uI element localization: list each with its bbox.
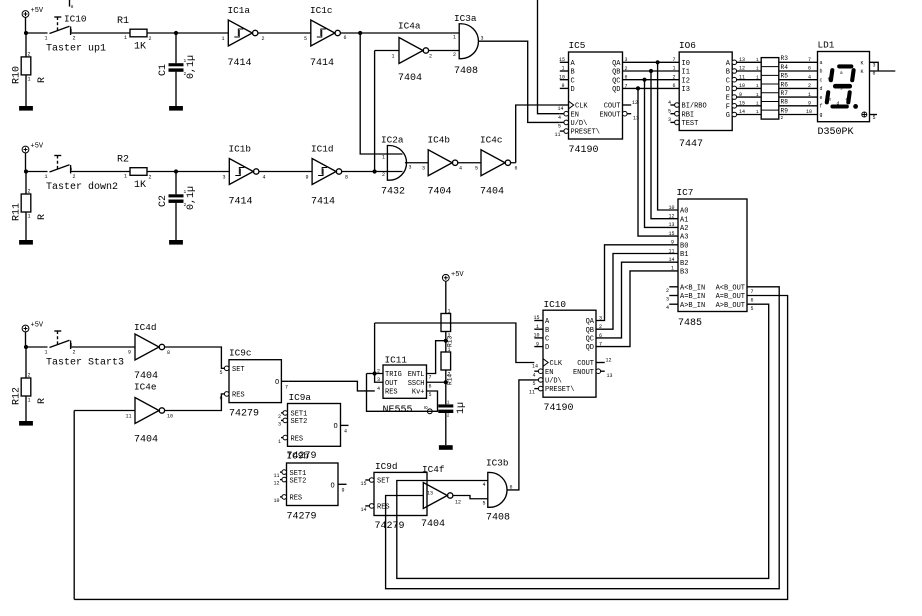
svg-text:4: 4 bbox=[533, 373, 536, 379]
svg-text:1: 1 bbox=[808, 92, 811, 98]
pin D 9 bbox=[560, 87, 569, 89]
svg-text:10: 10 bbox=[274, 498, 280, 504]
svg-text:D: D bbox=[571, 86, 575, 94]
svg-text:SET: SET bbox=[232, 366, 245, 374]
wire c bbox=[779, 79, 818, 81]
wire DIS up to resistor node bbox=[427, 341, 446, 374]
wire bbox=[375, 51, 399, 172]
svg-text:U/D\: U/D\ bbox=[545, 378, 562, 386]
wire QD to B3 bbox=[596, 271, 678, 347]
comparator IC7 7485 bbox=[666, 187, 754, 329]
svg-text:8: 8 bbox=[424, 406, 430, 409]
resistor R14 bbox=[441, 347, 454, 385]
svg-text:IC4e: IC4e bbox=[134, 382, 157, 393]
pin B 1 bbox=[534, 328, 543, 330]
pin C 11 bbox=[732, 77, 737, 82]
svg-text:1: 1 bbox=[756, 66, 759, 72]
svg-text:74279: 74279 bbox=[229, 409, 259, 420]
pin PRESET 11 bbox=[564, 129, 569, 134]
svg-text:3: 3 bbox=[278, 422, 281, 428]
svg-text:CLK: CLK bbox=[575, 103, 588, 111]
svg-text:QA: QA bbox=[586, 318, 595, 326]
svg-text:A>B_IN: A>B_IN bbox=[680, 302, 705, 310]
wire bbox=[25, 33, 27, 57]
svg-text:74190: 74190 bbox=[569, 145, 599, 156]
wire bbox=[25, 17, 27, 33]
svg-text:+5V: +5V bbox=[31, 7, 44, 15]
svg-text:IC2a: IC2a bbox=[381, 135, 404, 146]
pin RBI 5 bbox=[675, 111, 680, 116]
svg-text:7432: 7432 bbox=[381, 187, 405, 198]
svg-text:RES: RES bbox=[290, 495, 303, 503]
wire bbox=[25, 347, 27, 378]
junction bbox=[444, 380, 448, 384]
svg-text:12: 12 bbox=[606, 358, 612, 364]
junction bbox=[636, 86, 640, 90]
svg-text:2: 2 bbox=[673, 74, 676, 80]
svg-text:6: 6 bbox=[429, 383, 432, 389]
svg-text:1: 1 bbox=[28, 77, 31, 83]
wire bbox=[258, 32, 311, 34]
wire IC4e out to RES bbox=[165, 394, 225, 411]
svg-text:9: 9 bbox=[562, 83, 565, 89]
wire QA to A0 bbox=[658, 62, 678, 210]
wire QC bbox=[623, 79, 680, 81]
svg-text:0,1µ: 0,1µ bbox=[186, 55, 197, 79]
svg-text:4: 4 bbox=[459, 166, 462, 172]
wire IC9c Q to NE555 RES bbox=[288, 381, 375, 391]
svg-text:9: 9 bbox=[536, 341, 539, 347]
svg-text:D: D bbox=[545, 344, 549, 352]
wire QA to B0 bbox=[596, 245, 678, 321]
svg-text:1: 1 bbox=[448, 347, 451, 353]
wire QD bbox=[623, 87, 680, 89]
svg-text:6: 6 bbox=[220, 396, 223, 402]
ground bbox=[19, 106, 33, 111]
svg-text:7: 7 bbox=[429, 375, 432, 381]
junction bbox=[373, 169, 377, 173]
svg-text:R5: R5 bbox=[781, 73, 789, 80]
svg-text:1: 1 bbox=[184, 189, 187, 195]
pin G 14 bbox=[732, 112, 737, 117]
junction bbox=[174, 31, 178, 35]
svg-text:1: 1 bbox=[28, 398, 31, 404]
svg-text:G: G bbox=[726, 112, 730, 120]
svg-text:EN: EN bbox=[571, 111, 579, 119]
svg-text:IC11: IC11 bbox=[385, 355, 408, 366]
resistor R1 1K bbox=[117, 16, 152, 53]
svg-text:C: C bbox=[571, 77, 575, 85]
svg-text:10: 10 bbox=[669, 205, 675, 211]
wire bbox=[175, 33, 177, 63]
svg-text:SET2: SET2 bbox=[290, 477, 307, 485]
svg-text:IC4d: IC4d bbox=[134, 322, 157, 333]
svg-text:R12: R12 bbox=[12, 387, 23, 405]
svg-text:PRESET\: PRESET\ bbox=[545, 386, 574, 394]
svg-text:10: 10 bbox=[534, 333, 540, 339]
junction bbox=[24, 169, 28, 173]
pin EN 4 bbox=[538, 369, 543, 374]
svg-text:2: 2 bbox=[73, 350, 76, 356]
wire QD to A3 bbox=[638, 88, 678, 236]
svg-text:b: b bbox=[851, 73, 854, 79]
svg-text:7414: 7414 bbox=[228, 58, 252, 69]
wire bbox=[342, 171, 403, 173]
svg-text:1: 1 bbox=[45, 350, 48, 356]
svg-text:3: 3 bbox=[666, 297, 669, 303]
svg-text:QD: QD bbox=[612, 86, 620, 94]
latch IC9d 74279 bbox=[361, 461, 428, 532]
wire TRIG to Kv+ loop bbox=[367, 374, 438, 412]
ground bbox=[439, 445, 453, 450]
svg-text:7414: 7414 bbox=[229, 197, 253, 208]
svg-text:5: 5 bbox=[429, 392, 432, 398]
svg-text:2: 2 bbox=[73, 174, 76, 180]
svg-text:1: 1 bbox=[453, 35, 456, 41]
svg-text:7404: 7404 bbox=[480, 187, 504, 198]
svg-text:QD: QD bbox=[586, 344, 594, 352]
svg-text:NE555: NE555 bbox=[383, 405, 413, 416]
svg-text:1: 1 bbox=[756, 101, 759, 107]
svg-text:K: K bbox=[861, 61, 864, 67]
svg-text:7404: 7404 bbox=[428, 187, 452, 198]
svg-text:IC4b: IC4b bbox=[428, 135, 451, 146]
wire a bbox=[779, 61, 818, 63]
latch IC9b 74279 bbox=[274, 463, 347, 523]
svg-text:b: b bbox=[820, 69, 823, 75]
latch IC9a 74279 bbox=[278, 392, 349, 462]
svg-text:74279: 74279 bbox=[375, 521, 405, 532]
svg-text:6: 6 bbox=[515, 166, 518, 172]
pin E 9 bbox=[732, 95, 737, 100]
pin UD 5 bbox=[538, 378, 543, 383]
svg-text:2: 2 bbox=[453, 52, 456, 58]
pin D 10 bbox=[732, 86, 737, 91]
svg-text:A>B_OUT: A>B_OUT bbox=[716, 302, 745, 310]
pin CLK 14 bbox=[560, 104, 569, 106]
svg-text:9: 9 bbox=[342, 488, 345, 494]
svg-text:15: 15 bbox=[669, 231, 675, 237]
wire TRIG row bbox=[367, 323, 384, 382]
svg-text:3: 3 bbox=[668, 117, 671, 123]
wire QB bbox=[623, 70, 680, 72]
wire IC4f out to IC3b in2 bbox=[453, 496, 488, 499]
svg-text:D350PK: D350PK bbox=[818, 127, 854, 138]
svg-text:7404: 7404 bbox=[398, 73, 422, 84]
svg-text:F: F bbox=[726, 103, 730, 111]
svg-text:+5V: +5V bbox=[451, 271, 464, 279]
svg-text:5: 5 bbox=[558, 124, 561, 130]
svg-text:4: 4 bbox=[483, 482, 486, 488]
svg-text:12: 12 bbox=[632, 100, 638, 106]
pin F 15 bbox=[732, 104, 737, 109]
svg-text:7447: 7447 bbox=[679, 139, 703, 150]
svg-text:11: 11 bbox=[669, 248, 675, 254]
pin COUT 12 bbox=[623, 104, 632, 106]
svg-text:1µ: 1µ bbox=[456, 402, 467, 414]
capacitor C3 1u bbox=[438, 400, 467, 419]
svg-text:d: d bbox=[820, 86, 823, 92]
pin AEB_IN 3 bbox=[669, 295, 678, 297]
capacitor C2 bbox=[158, 186, 197, 210]
svg-text:10: 10 bbox=[806, 109, 812, 115]
svg-text:14: 14 bbox=[669, 257, 675, 263]
svg-text:2: 2 bbox=[447, 413, 450, 419]
pin ENOUT 13 bbox=[596, 369, 601, 374]
svg-text:C2: C2 bbox=[158, 195, 169, 207]
svg-text:IC1b: IC1b bbox=[229, 144, 252, 155]
svg-text:10: 10 bbox=[559, 74, 565, 80]
wire e bbox=[779, 96, 818, 98]
wire bbox=[175, 172, 177, 195]
svg-text:2: 2 bbox=[73, 36, 76, 42]
svg-text:4: 4 bbox=[263, 175, 266, 181]
svg-text:B: B bbox=[726, 69, 730, 77]
wire bbox=[25, 172, 27, 195]
wire bbox=[147, 32, 228, 34]
svg-text:E: E bbox=[726, 95, 730, 103]
svg-text:IC1d: IC1d bbox=[311, 144, 334, 155]
svg-text:g: g bbox=[820, 112, 823, 118]
wire QB to B1 bbox=[596, 254, 678, 330]
svg-text:7404: 7404 bbox=[134, 435, 158, 446]
svg-text:2: 2 bbox=[262, 36, 265, 42]
and gate IC3a bbox=[453, 13, 484, 77]
power +5V for timer bbox=[442, 271, 464, 281]
capacitor C1 bbox=[158, 55, 197, 79]
svg-text:1: 1 bbox=[278, 439, 281, 445]
svg-text:Taster Start3: Taster Start3 bbox=[46, 358, 124, 369]
pin D 9 bbox=[534, 346, 543, 348]
junction bbox=[656, 60, 660, 64]
pin C 10 bbox=[560, 79, 569, 81]
display LD1 D350PK bbox=[818, 40, 870, 139]
power +5V bbox=[22, 143, 44, 153]
svg-text:1: 1 bbox=[45, 36, 48, 42]
svg-text:1: 1 bbox=[756, 74, 759, 80]
pin AGB_IN 4 bbox=[669, 303, 678, 305]
svg-text:74190: 74190 bbox=[544, 403, 574, 414]
pin PRESET 11 bbox=[538, 386, 543, 391]
svg-text:f: f bbox=[820, 104, 823, 110]
ground bbox=[169, 106, 183, 111]
wire QC to A2 bbox=[645, 80, 679, 228]
junction bbox=[174, 169, 178, 173]
svg-text:4: 4 bbox=[808, 74, 811, 80]
svg-text:A<B_OUT: A<B_OUT bbox=[716, 284, 745, 292]
svg-text:COUT: COUT bbox=[604, 103, 621, 111]
svg-text:14: 14 bbox=[558, 106, 564, 112]
svg-text:d: d bbox=[837, 101, 840, 107]
svg-text:8: 8 bbox=[167, 350, 170, 356]
svg-text:0,1µ: 0,1µ bbox=[186, 186, 197, 210]
svg-text:1: 1 bbox=[756, 109, 759, 115]
resistor R12 bbox=[12, 373, 49, 406]
svg-text:8: 8 bbox=[873, 71, 876, 77]
svg-text:1: 1 bbox=[673, 66, 676, 72]
pin B 1 bbox=[560, 70, 569, 72]
power +5V bbox=[22, 322, 44, 332]
svg-text:5: 5 bbox=[751, 306, 754, 312]
svg-text:c: c bbox=[846, 98, 849, 103]
wire bbox=[445, 370, 447, 404]
svg-text:7404: 7404 bbox=[134, 371, 158, 382]
svg-text:5: 5 bbox=[475, 166, 478, 172]
svg-text:IO6: IO6 bbox=[679, 40, 696, 51]
wire bbox=[25, 75, 27, 106]
svg-text:R2: R2 bbox=[117, 155, 129, 166]
counter IC10 74190 bbox=[529, 299, 613, 414]
junction bbox=[373, 371, 377, 375]
svg-text:1: 1 bbox=[447, 400, 450, 406]
inverter IC4d bbox=[128, 322, 170, 382]
svg-text:QB: QB bbox=[586, 327, 594, 335]
pin A 13 bbox=[732, 60, 737, 65]
inverter IC4c bbox=[475, 135, 518, 198]
wire bbox=[478, 41, 559, 122]
svg-text:9: 9 bbox=[739, 92, 742, 98]
svg-text:1K: 1K bbox=[134, 180, 146, 191]
svg-text:R3: R3 bbox=[781, 55, 789, 62]
svg-text:R14: R14 bbox=[447, 374, 454, 385]
svg-text:Kv+: Kv+ bbox=[412, 389, 425, 397]
svg-text:15: 15 bbox=[739, 101, 745, 107]
svg-text:6: 6 bbox=[751, 298, 754, 304]
svg-text:5: 5 bbox=[483, 501, 486, 507]
svg-text:6: 6 bbox=[808, 66, 811, 72]
svg-text:11: 11 bbox=[126, 414, 132, 420]
wire f bbox=[779, 105, 818, 107]
wire b bbox=[779, 70, 818, 72]
svg-text:2: 2 bbox=[278, 414, 281, 420]
ground bbox=[19, 421, 33, 426]
wire bbox=[71, 346, 135, 348]
svg-text:O: O bbox=[334, 423, 338, 431]
svg-text:R11: R11 bbox=[12, 203, 23, 221]
junction bbox=[444, 339, 448, 343]
svg-text:2: 2 bbox=[149, 36, 152, 42]
svg-text:ENOUT: ENOUT bbox=[599, 111, 620, 119]
svg-text:R7: R7 bbox=[781, 90, 789, 97]
svg-text:15: 15 bbox=[534, 315, 540, 321]
svg-text:1: 1 bbox=[124, 35, 127, 41]
wire bbox=[71, 32, 130, 34]
wire ALB_OUT feedback to IC4f bbox=[386, 287, 780, 589]
inverter IC4b bbox=[422, 135, 462, 198]
svg-text:+5V: +5V bbox=[31, 322, 44, 330]
svg-text:SET: SET bbox=[377, 478, 390, 486]
svg-text:SET2: SET2 bbox=[291, 418, 308, 426]
svg-text:5: 5 bbox=[533, 381, 536, 387]
pin UD 5 bbox=[564, 120, 569, 125]
wire IC3b out to IC10 UD bbox=[507, 380, 536, 490]
svg-text:13: 13 bbox=[607, 373, 613, 379]
wire bbox=[259, 171, 312, 173]
svg-text:7414: 7414 bbox=[310, 58, 334, 69]
svg-text:15: 15 bbox=[559, 57, 565, 63]
svg-text:9: 9 bbox=[128, 350, 131, 356]
svg-text:OUT: OUT bbox=[385, 380, 398, 388]
wire bbox=[26, 332, 48, 347]
pin B 12 bbox=[732, 69, 737, 74]
wire bbox=[25, 396, 27, 421]
svg-text:g: g bbox=[840, 86, 843, 91]
svg-text:1: 1 bbox=[448, 309, 451, 315]
wire QB to A1 bbox=[651, 71, 678, 219]
svg-text:5: 5 bbox=[668, 109, 671, 115]
svg-text:RES: RES bbox=[385, 389, 398, 397]
pin A 15 bbox=[534, 320, 543, 322]
timer IC11 NE555 bbox=[377, 355, 432, 417]
pin COUT 12 bbox=[596, 362, 605, 364]
svg-text:8: 8 bbox=[71, 4, 74, 10]
svg-text:4: 4 bbox=[558, 115, 561, 121]
svg-text:A=B_IN: A=B_IN bbox=[680, 293, 705, 301]
svg-text:IC1a: IC1a bbox=[228, 5, 251, 16]
or gate IC2a bbox=[381, 135, 412, 198]
and gate IC3b bbox=[483, 458, 513, 524]
svg-text:11: 11 bbox=[274, 473, 280, 479]
svg-text:I1: I1 bbox=[682, 69, 690, 77]
svg-text:3: 3 bbox=[873, 63, 876, 69]
svg-text:A0: A0 bbox=[680, 208, 688, 216]
svg-text:COUT: COUT bbox=[577, 360, 594, 368]
svg-text:4: 4 bbox=[666, 305, 669, 311]
svg-text:ENOUT: ENOUT bbox=[573, 369, 594, 377]
svg-text:B2: B2 bbox=[680, 260, 688, 268]
svg-text:5: 5 bbox=[873, 115, 876, 121]
junction bbox=[649, 69, 653, 73]
svg-text:7485: 7485 bbox=[678, 318, 702, 329]
svg-text:12: 12 bbox=[739, 66, 745, 72]
latch IC9c 74279 bbox=[220, 348, 289, 420]
svg-text:B: B bbox=[571, 69, 575, 77]
pin BI/RBO 4 bbox=[675, 103, 680, 108]
svg-text:f: f bbox=[828, 77, 831, 83]
seven segment digit bbox=[827, 66, 854, 106]
svg-text:RES: RES bbox=[377, 504, 390, 512]
svg-text:IC4c: IC4c bbox=[480, 135, 503, 146]
inverter IC1b bbox=[223, 144, 266, 208]
wire bbox=[147, 171, 229, 173]
wire bbox=[445, 413, 447, 445]
svg-text:A<B_IN: A<B_IN bbox=[680, 284, 705, 292]
switch S2 Taster down2 bbox=[45, 156, 119, 194]
svg-text:7: 7 bbox=[285, 385, 288, 391]
svg-text:c: c bbox=[820, 77, 823, 83]
svg-text:3: 3 bbox=[409, 165, 412, 171]
svg-text:5: 5 bbox=[220, 370, 223, 376]
wire bbox=[175, 72, 177, 106]
wire bbox=[458, 162, 481, 164]
svg-text:CLK: CLK bbox=[550, 360, 563, 368]
svg-text:4: 4 bbox=[668, 100, 671, 106]
svg-text:1: 1 bbox=[671, 266, 674, 272]
inverter IC4f bbox=[421, 464, 461, 530]
wire SSCH bbox=[427, 381, 446, 383]
svg-text:QB: QB bbox=[612, 69, 620, 77]
svg-text:+5V: +5V bbox=[31, 143, 44, 151]
svg-text:C: C bbox=[726, 77, 730, 85]
svg-text:9: 9 bbox=[808, 101, 811, 107]
svg-text:IC7: IC7 bbox=[677, 187, 694, 198]
wire bbox=[445, 281, 447, 314]
wire anode pin 5 bbox=[870, 114, 878, 116]
svg-text:15: 15 bbox=[361, 481, 367, 487]
junction bbox=[24, 345, 28, 349]
svg-text:O: O bbox=[331, 482, 335, 490]
svg-text:IC9d: IC9d bbox=[375, 461, 398, 472]
